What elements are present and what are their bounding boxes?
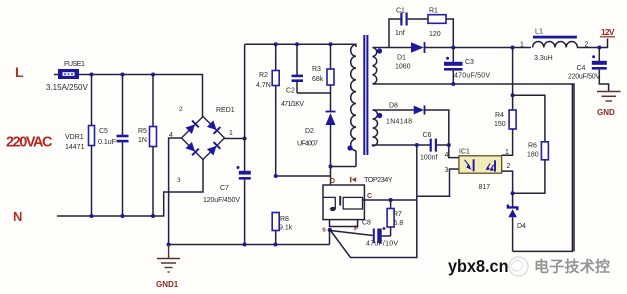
node junction rail-R3 (329, 42, 333, 46)
resistor R7 (387, 200, 403, 236)
svg-text:D1: D1 (397, 55, 406, 62)
svg-text:100nf: 100nf (420, 155, 438, 162)
varistor VDR1 (65, 75, 95, 217)
node junction D2-primary-Dpin (329, 165, 333, 169)
resistor R6 (513, 142, 549, 194)
node primary polarity dot (347, 145, 352, 150)
node junction N-VDR1 (90, 214, 94, 218)
node junction D1 wire R4 branch (511, 46, 515, 50)
svg-text:C8: C8 (362, 220, 371, 227)
wire S to ground bus (329, 230, 331, 245)
svg-text:1N4148: 1N4148 (386, 119, 412, 126)
wire bridge pin4 to ground bus (169, 138, 182, 245)
svg-text:3: 3 (177, 177, 181, 184)
wire D1 to L1 (425, 47, 532, 49)
wire R2 tap to D pin line (276, 175, 331, 177)
diode D1 (395, 42, 425, 71)
node junction C-R7 (389, 198, 393, 202)
transformer T1 secondary winding (373, 48, 377, 84)
wire L1 to output (577, 39, 608, 48)
svg-text:817: 817 (479, 184, 491, 191)
svg-text:3: 3 (445, 167, 449, 174)
capacitor C5 (98, 75, 129, 217)
wire L line (54, 74, 59, 76)
optocoupler IC1 (445, 149, 511, 192)
svg-text:R3: R3 (312, 66, 321, 73)
node junction pin1-C7-rail (243, 137, 247, 141)
wire bridge pin3 to N (153, 160, 203, 217)
node 220VAC label (6, 135, 53, 151)
diode bridge D bottom-right (207, 142, 221, 156)
svg-text:120: 120 (429, 31, 441, 38)
svg-text:14471: 14471 (65, 144, 85, 151)
svg-text:6.8: 6.8 (394, 220, 404, 227)
svg-text:C3: C3 (465, 59, 474, 66)
wire feedback bottom rail (513, 84, 573, 251)
diode bridge D top-right (207, 120, 221, 134)
inductor L1 (520, 27, 589, 63)
svg-text:68k: 68k (312, 76, 324, 83)
svg-text:D8: D8 (389, 103, 398, 110)
capacitor C1 snubber (389, 8, 428, 48)
svg-text:2: 2 (507, 163, 511, 170)
bridge rectifier RED1 outline (169, 106, 235, 184)
transformer T1 core (363, 35, 368, 155)
transformer T1 bias winding (373, 110, 378, 146)
svg-text:D2: D2 (305, 128, 314, 135)
svg-text:C7: C7 (220, 185, 229, 192)
svg-text:GND1: GND1 (156, 280, 179, 289)
svg-text:1N: 1N (138, 137, 147, 144)
svg-text:0.1uF: 0.1uF (98, 139, 116, 146)
wire S-F strap (330, 220, 358, 227)
node L (15, 64, 24, 80)
wire opto pin2 down (502, 171, 513, 193)
svg-text:电子技术控: 电子技术控 (534, 258, 610, 276)
wire R4 branch (512, 48, 514, 96)
wire N line (57, 215, 153, 217)
svg-text:3.15A/250V: 3.15A/250V (46, 83, 88, 92)
resistor R3 (312, 44, 334, 111)
svg-text:4: 4 (445, 152, 449, 159)
diode bridge D bottom-left (185, 142, 199, 156)
node junction bus-R8 (273, 243, 277, 247)
svg-text:C: C (367, 193, 372, 200)
node N (13, 209, 22, 224)
wire C pin line (364, 199, 416, 201)
node junction out-C4 (597, 46, 601, 50)
svg-text:1: 1 (520, 42, 524, 49)
svg-text:R6: R6 (528, 143, 537, 150)
node junction bias return (415, 143, 419, 147)
svg-text:471/1KV: 471/1KV (281, 101, 304, 108)
svg-text:R1: R1 (429, 8, 438, 15)
svg-text:GND: GND (597, 108, 615, 117)
capacitor C2 (281, 44, 304, 108)
svg-text:L: L (15, 64, 24, 80)
svg-text:R7: R7 (393, 211, 402, 218)
transformer T1 primary winding (351, 45, 356, 167)
wire L bus to bridge top (79, 75, 203, 118)
svg-text:1nf: 1nf (395, 30, 405, 37)
fuse FUSE1 (46, 59, 88, 92)
svg-text:RED1: RED1 (216, 107, 235, 114)
svg-text:FUSE1: FUSE1 (64, 59, 85, 68)
wire secondary top to D1 (373, 47, 412, 49)
node 12V output (600, 27, 615, 37)
wire DC+ rail (245, 44, 356, 47)
capacitor C8 47uF (331, 220, 399, 248)
wire opto pin3 stub (417, 169, 459, 196)
node junction R2-R8 (274, 174, 278, 178)
svg-text:C5: C5 (99, 128, 108, 135)
svg-text:D4: D4 (517, 223, 526, 230)
svg-text:220VAC: 220VAC (6, 135, 53, 151)
svg-text:180: 180 (527, 152, 539, 159)
svg-text:ybx8.cn: ybx8.cn (448, 256, 509, 276)
ground GND1 (156, 245, 180, 290)
svg-text:C4: C4 (577, 65, 586, 72)
node junction N-C5 (121, 214, 125, 218)
node junction pin2-R6-D4 (511, 191, 515, 195)
svg-text:R2: R2 (259, 72, 268, 79)
svg-text:R8: R8 (280, 216, 289, 223)
wire primary ground bus (169, 244, 330, 246)
node junction D1 wire C3 (451, 46, 455, 50)
node junction bus-GND1 (167, 243, 171, 247)
svg-text:120uF/450V: 120uF/450V (203, 197, 240, 204)
diode bridge D top-left (185, 121, 199, 135)
svg-text:470uF/50V: 470uF/50V (454, 73, 490, 80)
resistor R4 (494, 95, 516, 155)
resistor R5 (138, 75, 157, 217)
capacitor C7 electrolytic (203, 139, 251, 245)
svg-text:220uF/50V: 220uF/50V (568, 74, 600, 81)
node junction R4-R6 (511, 93, 515, 97)
svg-text:VDR1: VDR1 (65, 134, 84, 141)
wire D8 to C6 node (425, 110, 449, 145)
svg-text:9.1k: 9.1k (279, 225, 293, 232)
ground GND output (597, 92, 621, 118)
node junction S (328, 228, 332, 232)
wire C2 to R3 bottom link (297, 92, 331, 94)
capacitor C3 electrolytic (444, 48, 490, 85)
svg-text:D: D (330, 178, 335, 185)
node junction L-R5 (151, 73, 155, 77)
wire bias winding bottom (373, 145, 430, 146)
wire primary bottom to D pin (331, 167, 357, 186)
wire opto pin4 stub (449, 145, 459, 158)
diode D2 (297, 112, 336, 167)
resistor R2 (256, 44, 279, 176)
svg-text:150: 150 (494, 121, 506, 128)
node junction L-C5 (121, 73, 125, 77)
svg-text:3.3uH: 3.3uH (534, 55, 553, 62)
IC U1 TOP234Y (TOPSwitch) (322, 175, 393, 234)
node junction rail-C2 (295, 42, 299, 46)
wire S diagonal to lower rail (331, 145, 417, 258)
svg-text:R4: R4 (495, 112, 504, 119)
svg-text:12V: 12V (601, 27, 615, 37)
svg-text:L1: L1 (535, 27, 543, 36)
svg-text:IC1: IC1 (459, 149, 470, 156)
capacitor C4 electrolytic (568, 48, 609, 92)
svg-text:1: 1 (229, 130, 233, 137)
svg-text:1060: 1060 (395, 64, 411, 71)
svg-text:4.7N: 4.7N (256, 82, 271, 89)
wire rail riser (244, 44, 246, 138)
svg-text:C1: C1 (396, 8, 405, 15)
diode D4 zener (508, 193, 526, 251)
node junction N-R5-bridge (151, 214, 155, 218)
svg-text:s: s (322, 227, 326, 234)
node secondary polarity dot (377, 48, 382, 53)
node junction rail-C3 (451, 82, 455, 86)
wire R6 branch top (513, 95, 545, 142)
resistor R1 (428, 8, 453, 48)
diode D8 (386, 103, 425, 126)
node bias polarity dot (377, 113, 382, 118)
svg-text:C2: C2 (286, 88, 295, 95)
node junction L-VDR1 (90, 73, 94, 77)
svg-text:47uF/10V: 47uF/10V (366, 241, 398, 248)
svg-text:2: 2 (179, 106, 183, 113)
svg-text:UF4007: UF4007 (297, 141, 318, 148)
svg-text:R5: R5 (138, 128, 147, 135)
capacitor C6 (420, 132, 449, 162)
wire bridge pin1 to C7 node (225, 138, 245, 140)
svg-text:N: N (13, 209, 22, 224)
wire secondary return mid rail (373, 84, 575, 251)
resistor R8 (272, 213, 293, 245)
node junction bus-C7 (243, 243, 247, 247)
node junction rail-R2 (274, 42, 278, 46)
wire bias winding top to D8 (373, 109, 414, 111)
svg-text:C6: C6 (423, 132, 432, 139)
node footer logo text (448, 256, 610, 276)
svg-text:TOP234Y: TOP234Y (364, 175, 393, 184)
node junction D8-C6-pin4 (447, 143, 451, 147)
